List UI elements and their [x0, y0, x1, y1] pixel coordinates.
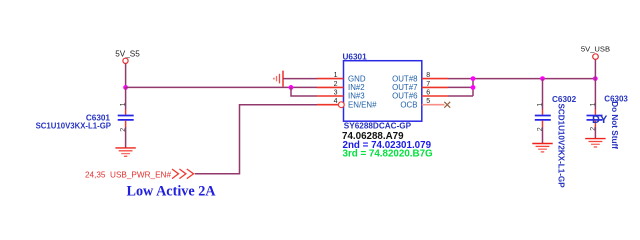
no-connect X on OCB — [444, 102, 450, 108]
svg-text:1: 1 — [334, 72, 338, 79]
off-page connector USB_PWR_EN# chevrons — [172, 169, 194, 179]
wire 5V_USB drop — [594, 59, 596, 78]
op-amp U6301 body — [344, 61, 422, 121]
svg-text:1: 1 — [120, 102, 127, 106]
wire 5V_S5 net to IN#2 — [126, 86, 317, 88]
pin stub IN#2 2 — [317, 86, 344, 88]
svg-text:OUT#8: OUT#8 — [392, 74, 418, 83]
svg-text:SY6288DCAC-GP: SY6288DCAC-GP — [344, 121, 412, 130]
wire OUT#7 tie — [448, 86, 473, 88]
svg-text:IN#3: IN#3 — [348, 92, 365, 101]
svg-text:Do Not Stuff: Do Not Stuff — [610, 101, 619, 149]
svg-text:6: 6 — [426, 89, 430, 96]
wire OUT vertical tie — [472, 79, 474, 96]
node junction OUT8 — [471, 76, 476, 81]
wire OUT net — [448, 78, 595, 80]
node junction C6302 tap — [540, 76, 545, 81]
pin stub EN/EN# 4 with bubble — [317, 102, 344, 108]
capacitor C6301 — [118, 87, 134, 147]
ground below C6303 — [585, 139, 605, 147]
svg-text:7: 7 — [426, 81, 430, 88]
ground below C6301 — [115, 148, 135, 156]
capacitor C6302 — [535, 79, 551, 144]
power symbol 5V_USB — [581, 45, 610, 60]
wire OUT#6 tie — [448, 95, 473, 97]
svg-text:3rd = 74.82020.B7G: 3rd = 74.82020.B7G — [343, 149, 434, 160]
pin stub OUT#8 8 — [422, 78, 448, 80]
svg-text:2: 2 — [120, 128, 127, 132]
pin stub OUT#7 7 — [422, 86, 448, 88]
ground below C6302 — [532, 144, 552, 152]
svg-text:5: 5 — [426, 98, 430, 105]
svg-text:1: 1 — [590, 103, 597, 107]
wire IN#3 drop — [291, 87, 317, 96]
pin stub OCB 5 — [422, 104, 445, 106]
svg-text:EN/EN#: EN/EN# — [348, 100, 377, 109]
svg-text:U6301: U6301 — [343, 52, 368, 61]
pin stub OUT#6 6 — [422, 95, 448, 97]
power symbol 5V_S5 — [115, 50, 140, 64]
svg-text:5V_S5: 5V_S5 — [115, 50, 140, 59]
svg-text:2: 2 — [590, 127, 597, 131]
svg-text:SCD1U10V2KX-L1-GP: SCD1U10V2KX-L1-GP — [556, 104, 565, 189]
node junction OUT7 — [471, 85, 476, 90]
svg-text:8: 8 — [426, 72, 430, 79]
node junction at 5V_S5 — [123, 85, 128, 90]
wire EN/EN# net from USB_PWR_EN# — [195, 105, 317, 174]
svg-text:Low Active 2A: Low Active 2A — [127, 184, 217, 200]
svg-text:2: 2 — [334, 81, 338, 88]
svg-text:2: 2 — [537, 127, 544, 131]
capacitor C6303 — [587, 79, 603, 139]
wire 5V_S5 vertical drop — [125, 63, 127, 87]
svg-text:C6302: C6302 — [552, 95, 577, 104]
pin stub IN#3 3 — [317, 95, 344, 97]
svg-text:24,35 USB_PWR_EN#: 24,35 USB_PWR_EN# — [85, 170, 171, 179]
svg-text:OUT#6: OUT#6 — [392, 92, 418, 101]
svg-text:OCB: OCB — [400, 100, 417, 109]
node junction 5V_USB tap — [593, 76, 598, 81]
svg-text:SC1U10V3KX-L1-GP: SC1U10V3KX-L1-GP — [36, 122, 111, 131]
ground at GND pin (rotated) — [274, 71, 283, 87]
svg-text:4: 4 — [334, 98, 338, 105]
node junction IN#3 tap — [289, 85, 294, 90]
svg-text:5V_USB: 5V_USB — [581, 45, 610, 54]
svg-text:GND: GND — [348, 74, 366, 83]
svg-text:3: 3 — [334, 89, 338, 96]
svg-text:DY: DY — [592, 114, 608, 126]
wire GND pin to ground — [283, 78, 317, 80]
svg-text:1: 1 — [537, 103, 544, 107]
pin stub GND 1 — [317, 78, 344, 80]
